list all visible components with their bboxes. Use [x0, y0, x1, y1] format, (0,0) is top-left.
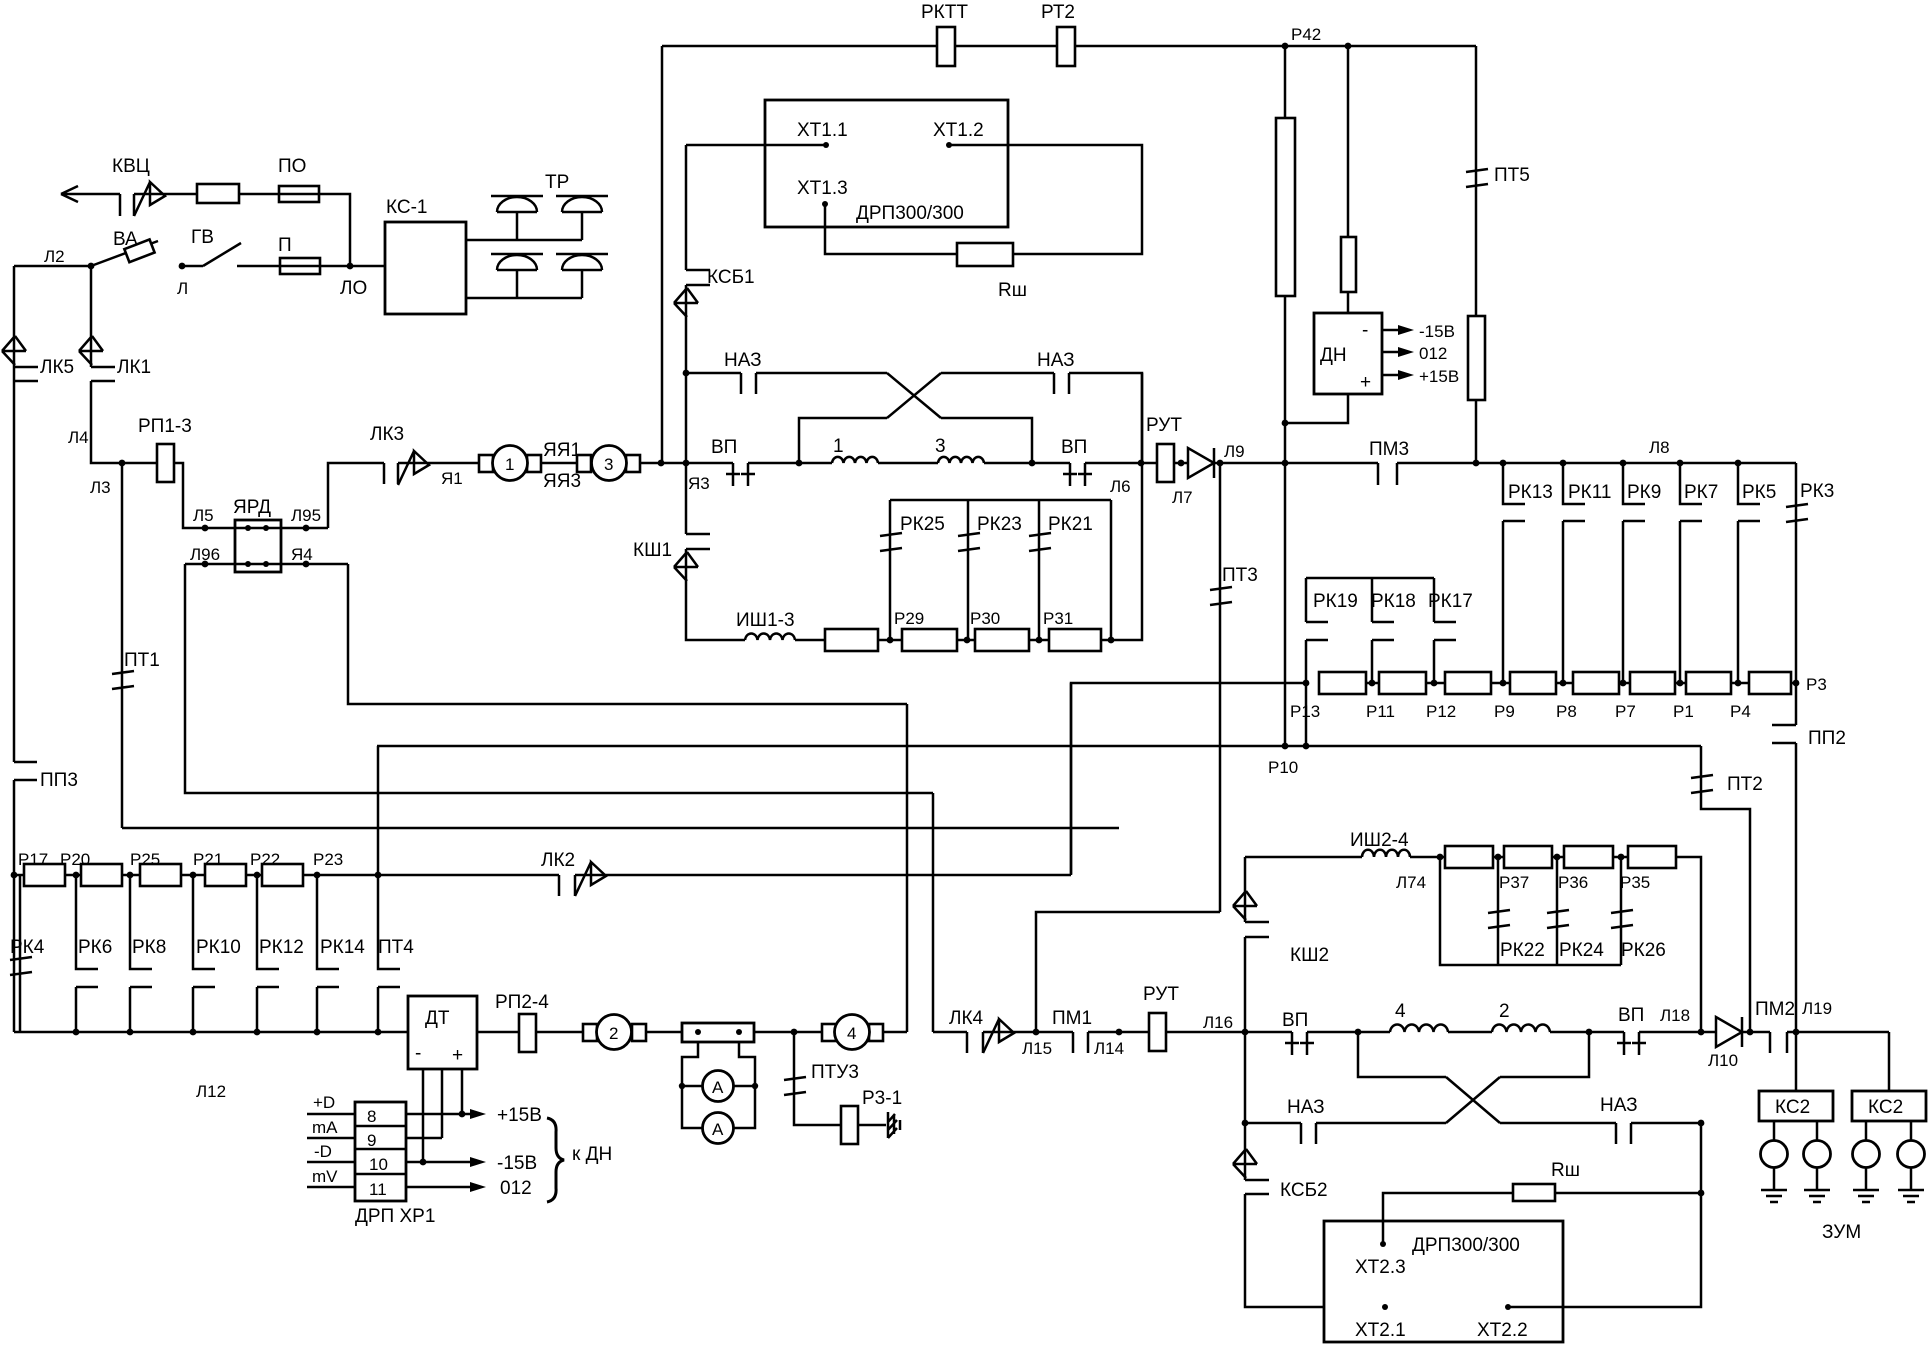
svg-text:Rш: Rш	[998, 280, 1027, 301]
svg-text:+: +	[452, 1045, 463, 1066]
contactor LK1	[91, 367, 115, 381]
contactor LK4	[967, 1032, 983, 1053]
svg-text:Я1: Я1	[441, 469, 463, 488]
svg-text:Р7: Р7	[1615, 702, 1636, 721]
NAZ wire lower left	[1242, 1120, 1249, 1127]
svg-text:ЛК5: ЛК5	[40, 357, 74, 378]
svg-text:-: -	[415, 1043, 421, 1064]
svg-text:Р17: Р17	[18, 850, 48, 869]
relay coil RUT2	[1149, 1013, 1166, 1051]
svg-text:КСБ2: КСБ2	[1280, 1180, 1328, 1201]
svg-text:РКТТ: РКТТ	[921, 2, 968, 23]
box KS-1	[385, 222, 466, 314]
svg-text:ПТ3: ПТ3	[1222, 565, 1258, 586]
pin +D	[307, 1113, 355, 1116]
small resistor DN	[1341, 237, 1356, 292]
svg-text:НАЗ: НАЗ	[1287, 1097, 1325, 1118]
wire L18	[1639, 1031, 1716, 1034]
terminal XT1.2	[949, 145, 1142, 254]
wire to motor 4	[754, 1031, 822, 1034]
top wire with RKTT RT2	[662, 46, 1476, 463]
svg-text:Л14: Л14	[1094, 1039, 1124, 1058]
PT5 vertical	[1475, 46, 1478, 170]
tall resistor 1	[1276, 118, 1295, 296]
svg-text:10: 10	[369, 1155, 388, 1174]
wire to motor 1	[398, 462, 479, 465]
contact RK8	[130, 875, 152, 1032]
svg-text:Rш: Rш	[1551, 1160, 1580, 1181]
svg-text:РТ2: РТ2	[1041, 2, 1075, 23]
resistor R37	[1504, 846, 1552, 868]
svg-text:Л8: Л8	[1649, 438, 1670, 457]
resistor R29	[902, 629, 957, 651]
svg-text:КС-1: КС-1	[386, 197, 427, 218]
svg-text:+: +	[1360, 372, 1371, 393]
svg-text:ХТ2.2: ХТ2.2	[1477, 1320, 1528, 1341]
contact NAZ right	[1054, 373, 1069, 394]
switch GV	[182, 243, 241, 266]
svg-text:8: 8	[367, 1107, 376, 1126]
resistor (unnamed)	[197, 184, 239, 203]
resistor R31	[1049, 629, 1101, 651]
contactor KSB2	[1244, 1123, 1247, 1180]
node L3	[119, 460, 126, 467]
svg-text:Я3: Я3	[688, 474, 710, 493]
inductor ISh1-3	[745, 633, 795, 640]
svg-text:Л2: Л2	[44, 247, 65, 266]
resistor R17	[24, 864, 65, 886]
contact RK6	[76, 875, 98, 1032]
box YARD	[235, 520, 281, 572]
wire R13 to R10	[1305, 683, 1308, 746]
brace k DN	[547, 1118, 564, 1202]
connector DRP XR1	[355, 1102, 406, 1201]
svg-text:ДРП300/300: ДРП300/300	[1412, 1235, 1520, 1256]
svg-text:РП1-3: РП1-3	[138, 416, 192, 437]
resistor R9-R8	[1510, 672, 1556, 694]
wire motor4 to riser A	[883, 1031, 907, 1034]
svg-text:1: 1	[833, 436, 844, 457]
svg-text:ПМ1: ПМ1	[1052, 1008, 1092, 1029]
svg-text:РУТ: РУТ	[1146, 415, 1182, 436]
svg-text:РК6: РК6	[78, 937, 112, 958]
node R9	[1500, 680, 1507, 687]
contact RK11	[1560, 460, 1567, 467]
contact PT2	[1700, 746, 1703, 776]
resistor R21	[205, 864, 246, 886]
wire L4 upper	[13, 266, 16, 367]
contactor KSh2	[1244, 857, 1247, 922]
wire Ya4 down-right	[348, 564, 907, 704]
resistor R35	[1628, 846, 1676, 868]
wire PT4 riser	[377, 746, 380, 875]
NAZ wire left	[683, 370, 690, 377]
svg-text:Р30: Р30	[970, 609, 1000, 628]
NAZ wire lower right	[1500, 1122, 1616, 1125]
svg-text:ЛО: ЛО	[340, 278, 367, 299]
wire to L15	[983, 1031, 1073, 1034]
node R12	[1431, 680, 1438, 687]
node L95	[281, 527, 328, 530]
pin mA	[307, 1137, 355, 1140]
ammeter A1	[703, 1071, 734, 1102]
node R13	[1303, 680, 1310, 687]
inductor 4	[1390, 1024, 1448, 1032]
contact NAZ left	[741, 373, 756, 394]
svg-text:РК26: РК26	[1621, 940, 1666, 961]
ammeter loop wires	[682, 1042, 755, 1128]
svg-text:ПТУ3: ПТУ3	[811, 1062, 859, 1083]
node R7	[1620, 680, 1627, 687]
wire RP1-3 to L5	[174, 463, 235, 528]
contact RK5	[1735, 460, 1742, 467]
svg-text:РК19: РК19	[1313, 591, 1358, 612]
contact PTU3	[793, 1032, 796, 1078]
svg-text:РК25: РК25	[900, 514, 945, 535]
resistor bus feed	[1071, 683, 1306, 874]
svg-text:РК18: РК18	[1371, 591, 1416, 612]
wire L2 run	[14, 265, 91, 268]
svg-text:Р8: Р8	[1556, 702, 1577, 721]
svg-text:11: 11	[369, 1180, 387, 1199]
svg-text:Р37: Р37	[1499, 873, 1529, 892]
vertical R42 with tall resistor	[1284, 46, 1287, 118]
box DN	[1314, 313, 1382, 394]
svg-text:Р23: Р23	[313, 850, 343, 869]
svg-text:ХТ2.3: ХТ2.3	[1355, 1257, 1406, 1278]
svg-text:ПМ3: ПМ3	[1369, 439, 1409, 460]
svg-text:ХТ1.2: ХТ1.2	[933, 120, 984, 141]
svg-text:-: -	[1362, 320, 1368, 341]
svg-text:Р12: Р12	[1426, 702, 1456, 721]
svg-text:ПМ2: ПМ2	[1755, 999, 1795, 1020]
TR dome 2	[556, 196, 608, 240]
terminal XT1.1	[686, 144, 826, 147]
node R42	[1282, 43, 1289, 50]
node R3	[1793, 680, 1800, 687]
wire PT1 vertical upper	[121, 463, 124, 672]
resistor Rsh2	[1513, 1184, 1555, 1201]
wire R10 bus	[377, 745, 1701, 748]
svg-text:3: 3	[604, 455, 613, 474]
wire	[134, 193, 197, 196]
box RK19/18/17	[1306, 578, 1434, 622]
contactor LK3	[384, 463, 398, 484]
snake vertical B	[932, 793, 935, 1032]
svg-text:ЯЯ3: ЯЯ3	[543, 471, 581, 492]
relay coil R3-1	[841, 1106, 858, 1144]
svg-text:ЛК4: ЛК4	[949, 1008, 984, 1029]
ground	[1853, 1190, 1879, 1202]
resistor R7-R1	[1630, 672, 1675, 694]
svg-text:ПТ5: ПТ5	[1494, 165, 1530, 186]
svg-text:Л16: Л16	[1203, 1013, 1233, 1032]
svg-text:4: 4	[1395, 1001, 1406, 1022]
svg-text:РК11: РК11	[1568, 482, 1611, 503]
svg-text:ТР: ТР	[545, 172, 569, 193]
svg-text:mV: mV	[312, 1167, 338, 1186]
svg-text:ХТ1.1: ХТ1.1	[797, 120, 848, 141]
svg-text:ВП: ВП	[1061, 437, 1087, 458]
lamp 4	[1910, 1121, 1913, 1141]
svg-text:Л7: Л7	[1172, 488, 1193, 507]
contact PP2	[1795, 683, 1798, 725]
contact PT4	[378, 875, 400, 1032]
svg-text:КС2: КС2	[1868, 1097, 1903, 1118]
contactor KVC	[120, 194, 134, 216]
svg-text:Л3: Л3	[90, 478, 111, 497]
svg-text:ДН: ДН	[1320, 345, 1347, 366]
contactor LK5	[14, 367, 38, 381]
arrow +15V	[1382, 374, 1398, 377]
svg-text:РК13: РК13	[1508, 482, 1553, 503]
wire to L14	[1088, 1031, 1149, 1034]
svg-text:Л: Л	[177, 279, 188, 298]
DT leads	[423, 1069, 462, 1162]
resistor R36	[1564, 846, 1613, 868]
svg-text:А: А	[712, 1120, 724, 1139]
contact VP left lower	[1285, 1032, 1314, 1055]
svg-text:Л74: Л74	[1396, 873, 1426, 892]
svg-text:ГВ: ГВ	[191, 227, 214, 248]
bus L8	[1397, 462, 1796, 465]
LK2 bus corner riser	[1070, 683, 1073, 875]
svg-text:КВЦ: КВЦ	[112, 156, 150, 177]
contact PM3	[1378, 463, 1397, 485]
box RK22/24/26	[1440, 857, 1621, 965]
svg-text:Р31: Р31	[1043, 609, 1073, 628]
svg-text:ЯРД: ЯРД	[233, 497, 271, 518]
contact RK7	[1677, 460, 1684, 467]
svg-text:НАЗ: НАЗ	[1600, 1095, 1638, 1116]
svg-text:ЛК2: ЛК2	[541, 850, 575, 871]
svg-text:9: 9	[367, 1131, 376, 1150]
contact NAZ lower right	[1616, 1123, 1631, 1144]
box RK25/23/21 top	[890, 500, 1111, 640]
svg-text:-D: -D	[314, 1142, 332, 1161]
resistor (shunt 1)	[825, 629, 878, 651]
svg-text:ВП: ВП	[711, 437, 737, 458]
svg-text:КС2: КС2	[1775, 1097, 1810, 1118]
svg-text:mA: mA	[312, 1118, 338, 1137]
contact RK3	[1795, 463, 1798, 683]
svg-text:3: 3	[935, 436, 946, 457]
wire row11 012	[406, 1186, 470, 1189]
node L9	[1214, 462, 1378, 465]
L15 riser	[1036, 912, 1220, 1032]
svg-text:ЗУМ: ЗУМ	[1822, 1222, 1861, 1243]
svg-text:ВП: ВП	[1282, 1010, 1308, 1031]
svg-text:РК3: РК3	[1800, 481, 1834, 502]
ammeter A2	[703, 1113, 734, 1144]
terminal XT2.3	[1380, 1241, 1386, 1247]
diode L7	[1188, 448, 1214, 478]
svg-text:ПП3: ПП3	[40, 770, 78, 791]
svg-text:ПП2: ПП2	[1808, 728, 1846, 749]
relay coil RP1-3	[157, 444, 174, 482]
contact RK25	[880, 533, 902, 551]
box DRP300/300 no.2	[1324, 1221, 1563, 1342]
contact RK24	[1547, 910, 1569, 928]
svg-text:Р11: Р11	[1366, 702, 1395, 721]
wire	[878, 462, 938, 465]
box DT	[408, 996, 477, 1069]
node R4	[1735, 680, 1742, 687]
resistor R20	[81, 864, 122, 886]
crossover 4-2	[1446, 1077, 1500, 1123]
contact RK9	[1620, 460, 1627, 467]
svg-text:Л18: Л18	[1660, 1006, 1690, 1025]
contact NAZ lower left	[1301, 1123, 1316, 1144]
motor 3	[577, 455, 591, 472]
svg-text:КШ1: КШ1	[633, 540, 672, 561]
wire row10 -15V	[406, 1161, 470, 1164]
svg-text:НАЗ: НАЗ	[724, 350, 762, 371]
svg-text:Р29: Р29	[894, 609, 924, 628]
wire L4 lower	[13, 780, 16, 1032]
contact RK21	[1029, 533, 1051, 551]
tall resistor 2	[1468, 316, 1485, 400]
wire	[984, 462, 1070, 465]
resistor R11-R12	[1379, 672, 1426, 694]
wire to LO corner	[319, 194, 350, 266]
svg-text:ПТ4: ПТ4	[378, 937, 414, 958]
svg-text:РК24: РК24	[1559, 940, 1604, 961]
terminal XT1.3	[825, 204, 957, 254]
contactor KSB1	[685, 145, 688, 270]
svg-text:РК10: РК10	[196, 937, 241, 958]
wire LK1 vertical	[90, 266, 93, 367]
resistor R22	[262, 864, 303, 886]
svg-text:РК5: РК5	[1742, 482, 1776, 503]
node R11	[1369, 680, 1376, 687]
motor 4	[822, 1024, 836, 1041]
inductor 1	[832, 457, 878, 463]
svg-text:012: 012	[500, 1178, 532, 1199]
box KS2 no.1	[1795, 1032, 1798, 1091]
contact RK4	[19, 875, 22, 958]
contactor KSh1	[685, 463, 688, 534]
lamp 3	[1865, 1121, 1868, 1141]
wire PT1 to L14	[122, 827, 1119, 830]
svg-text:ДРП ХР1: ДРП ХР1	[355, 1206, 435, 1227]
contact VP left	[726, 463, 755, 486]
resistor R13-R11	[1319, 672, 1366, 694]
svg-text:ПО: ПО	[278, 156, 306, 177]
relay coil RT2	[1057, 27, 1075, 66]
svg-text:Л19: Л19	[1802, 999, 1832, 1018]
svg-text:РК7: РК7	[1684, 482, 1718, 503]
arrow -15V	[1382, 329, 1398, 332]
svg-text:ЛК1: ЛК1	[117, 357, 151, 378]
LK2 bus to right	[575, 874, 1071, 877]
svg-text:А: А	[712, 1078, 724, 1097]
node Ya4	[281, 563, 348, 566]
TR transformer wires	[466, 240, 582, 298]
wire between motors	[541, 462, 577, 465]
contact RK19	[1306, 622, 1328, 683]
contact RK13	[1500, 460, 1507, 467]
svg-text:РК9: РК9	[1627, 482, 1661, 503]
svg-text:Р21: Р21	[193, 850, 223, 869]
svg-text:Л5: Л5	[193, 506, 214, 525]
svg-text:Л12: Л12	[196, 1082, 226, 1101]
box KS2 no.2	[1888, 1032, 1891, 1091]
svg-text:ДРП300/300: ДРП300/300	[856, 203, 964, 224]
contact RK14	[317, 875, 339, 1032]
resistor R4-R3	[1749, 672, 1791, 694]
terminal XT2.2	[1505, 1304, 1511, 1310]
DN branch	[1347, 46, 1350, 237]
contact PM2	[1770, 1032, 1787, 1053]
svg-text:ВП: ВП	[1618, 1005, 1644, 1026]
contact RK22	[1488, 910, 1510, 928]
svg-text:1: 1	[505, 455, 514, 474]
contact VP right lower	[1617, 1032, 1646, 1055]
relay coil RUT	[1157, 444, 1174, 482]
svg-text:ПТ2: ПТ2	[1727, 774, 1763, 795]
svg-text:НАЗ: НАЗ	[1037, 350, 1075, 371]
svg-text:Л9: Л9	[1224, 442, 1245, 461]
wire LK4 start	[933, 1031, 967, 1034]
wire L16	[1166, 1031, 1292, 1034]
wire motor3 to node	[640, 462, 733, 465]
wire L4 mid	[13, 381, 16, 762]
fuse P	[280, 258, 320, 274]
svg-text:Л4: Л4	[68, 428, 89, 447]
inductor ISh2-4	[1362, 850, 1410, 857]
node LO	[320, 265, 385, 268]
resistor R12-R9	[1445, 672, 1491, 694]
TR dome 1	[491, 196, 543, 240]
TR dome 3	[491, 254, 543, 298]
node L	[179, 263, 186, 270]
svg-text:Р22: Р22	[250, 850, 280, 869]
svg-text:Р35: Р35	[1620, 873, 1650, 892]
fuse PO	[279, 186, 319, 202]
svg-text:+15В: +15В	[497, 1105, 542, 1126]
svg-text:РК17: РК17	[1428, 591, 1473, 612]
svg-text:РК21: РК21	[1048, 514, 1093, 535]
svg-text:РК12: РК12	[259, 937, 304, 958]
ground (roof) R3-1	[888, 1112, 900, 1138]
contact RK26	[1611, 910, 1633, 928]
TR dome 4	[556, 254, 608, 298]
svg-text:Л95: Л95	[291, 506, 321, 525]
svg-text:Л15: Л15	[1022, 1039, 1052, 1058]
wire PT3 vertical	[1219, 463, 1222, 588]
contact RK12	[257, 875, 279, 1032]
wire to fuse P	[237, 265, 280, 268]
svg-text:КШ2: КШ2	[1290, 945, 1329, 966]
node L5	[202, 525, 209, 532]
svg-text:П: П	[278, 235, 292, 256]
motor 2	[583, 1024, 597, 1041]
svg-text:к ДН: к ДН	[572, 1144, 612, 1165]
ground	[1804, 1190, 1830, 1202]
svg-text:012: 012	[1419, 344, 1447, 363]
breaker VA	[91, 241, 158, 266]
svg-text:ХТ1.3: ХТ1.3	[797, 178, 848, 199]
wire DT to RP2-4	[477, 1031, 519, 1034]
wire	[795, 639, 825, 642]
svg-text:4: 4	[847, 1024, 856, 1043]
svg-text:ЯЯ1: ЯЯ1	[543, 440, 581, 461]
relay coil RP2-4	[519, 1014, 536, 1052]
bracket inductors 4-2	[1358, 1032, 1589, 1077]
svg-text:РП2-4: РП2-4	[495, 992, 549, 1013]
svg-text:Л6: Л6	[1110, 477, 1131, 496]
